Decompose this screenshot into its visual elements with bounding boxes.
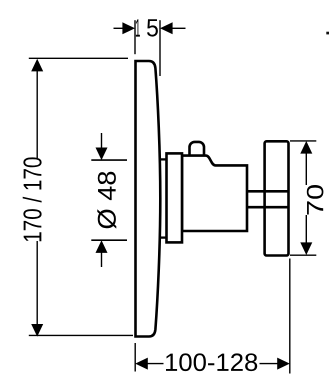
stem / spindle lines through handle (247, 191, 289, 207)
dim 70: label (307, 185, 324, 215)
valve body (182, 156, 247, 231)
step top (plate to flange) (157, 158, 167, 160)
dim 70: arrowhead down (300, 242, 312, 255)
dim Ø48: leader above (101, 133, 103, 149)
dim 100-128: arrowhead left-pointing (135, 358, 148, 370)
dim Ø48: label (97, 172, 116, 229)
dim 70: arrowhead up (300, 141, 312, 154)
dim 100-128: dimension line (146, 363, 279, 365)
dim 100-128: arrowhead right-pointing (277, 358, 290, 370)
dim Ø48: tick top (91, 159, 127, 161)
dim Ø48: arrowhead down (96, 148, 108, 161)
dim 70: extension line bottom (290, 254, 316, 256)
dim 170/170: label (23, 157, 42, 241)
dim 100-128: extension line right (289, 259, 291, 374)
dim 15: dimension line left (114, 27, 125, 29)
dim 15: extension line right (159, 20, 161, 76)
dim 15: label (136, 19, 140, 36)
stray mark top right (326, 32, 329, 35)
dim 170/170: extension line bottom (29, 334, 133, 336)
dim 15: dimension line right (171, 27, 186, 29)
dim 170/170: arrowhead down (31, 324, 43, 337)
dim 15: arrowhead left-pointing (160, 22, 173, 34)
dim Ø48: arrowhead up (96, 240, 108, 253)
dim Ø48: tick bottom (91, 239, 127, 241)
dim 70: dimension line (305, 151, 307, 245)
handle bar (cross handle seen from side) (265, 141, 289, 255)
dim 170/170: extension line top (29, 57, 128, 59)
dim 70: extension line top (290, 140, 316, 142)
dim 15: arrowhead right-pointing (122, 22, 135, 34)
dim 100-128: extension line left (134, 343, 136, 372)
step bottom (plate to flange) (157, 236, 167, 238)
button bump on top of body (190, 142, 205, 162)
dim 100-128: label (166, 353, 257, 371)
flange ring (167, 153, 183, 242)
wall plate (escutcheon, side view) (136, 61, 161, 337)
dim Ø48: leader below (101, 252, 103, 268)
dim 15: extension line left (134, 20, 136, 54)
dim 170/170: dimension line (36, 69, 38, 327)
dim 170/170: arrowhead up (31, 59, 43, 72)
